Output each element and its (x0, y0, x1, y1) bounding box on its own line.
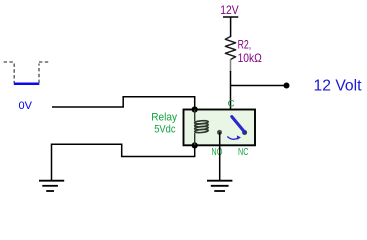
svg-text:0V: 0V (19, 100, 33, 112)
svg-text:NC: NC (238, 146, 249, 158)
svg-text:Relay: Relay (151, 111, 177, 123)
pulse dashed high level right (39, 61, 50, 63)
switch NC contact dot (242, 130, 247, 135)
resistor R2 (225, 37, 235, 60)
switch NO contact dot (217, 130, 222, 135)
switch motion arrow (227, 137, 238, 140)
wire relay coil bottom to left ground (52, 144, 195, 180)
coil wire top (194, 110, 196, 122)
pulse low level solid (14, 83, 40, 86)
pulse rising edge (38, 64, 40, 84)
junction dot (284, 83, 290, 89)
power rail bar (223, 16, 238, 18)
svg-text:C: C (228, 99, 235, 110)
svg-text:R2,: R2, (238, 38, 252, 52)
svg-text:5Vdc: 5Vdc (154, 123, 176, 135)
coil L1 loops (194, 120, 208, 133)
svg-text:12 Volt: 12 Volt (314, 77, 363, 94)
switch lever (232, 117, 244, 132)
wire junction branch right (231, 85, 286, 87)
middle ground (207, 181, 232, 191)
coil wire bottom (194, 133, 196, 145)
wire NO contact to ground (219, 132, 221, 180)
wire resistor to relay common (230, 71, 232, 117)
pulse falling edge (13, 64, 15, 84)
wire pulse source to relay coil top (52, 97, 195, 109)
pulse source waveform dashed high level left (4, 61, 15, 63)
relay body box (184, 110, 256, 146)
resistor bottom pin stub (230, 60, 232, 73)
coil top pin dot (192, 106, 198, 112)
svg-text:10kΩ: 10kΩ (238, 51, 262, 65)
wire rail to resistor (230, 17, 232, 37)
svg-text:12V: 12V (220, 3, 238, 17)
svg-text:NO: NO (211, 146, 222, 158)
coil bottom pin dot (192, 142, 198, 148)
left ground (39, 181, 64, 191)
